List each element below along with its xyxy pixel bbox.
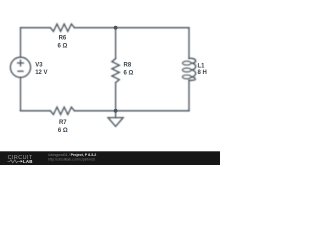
- wire right vertical top: [188, 28, 190, 59]
- inductor L1 coil arc 2: [191, 63, 196, 70]
- logo arrow: [21, 160, 23, 162]
- junction node top: [114, 26, 118, 30]
- inductor L1 loop ellipse 2: [182, 68, 191, 72]
- svg-text:6 Ω: 6 Ω: [124, 70, 134, 76]
- wire top middle: [74, 27, 189, 29]
- wire top-left horizontal lead: [21, 27, 51, 29]
- junction node bottom: [114, 109, 118, 113]
- ground stem: [115, 111, 117, 118]
- svg-text:http://circuitlab.com/c/p8hm3t: http://circuitlab.com/c/p8hm3t: [48, 158, 95, 162]
- resistor R8: [112, 59, 119, 83]
- inductor L1 coil arc 1: [189, 58, 196, 63]
- watermark bar: [0, 151, 220, 165]
- svg-text:8 H: 8 H: [198, 70, 207, 76]
- ground triangle: [108, 118, 123, 127]
- watermark credits line 1: [48, 153, 96, 162]
- logo zigzag: [7, 160, 20, 163]
- svg-text:R8: R8: [124, 63, 132, 69]
- wire R8 top lead: [115, 28, 117, 59]
- V3 minus sign: [18, 70, 23, 72]
- resistor R6: [50, 24, 74, 31]
- wire left vertical bottom: [20, 77, 22, 110]
- svg-text:12 V: 12 V: [35, 70, 47, 76]
- wire left vertical top: [20, 28, 22, 58]
- resistor R7: [50, 107, 74, 114]
- inductor L1 coil arc 3: [191, 70, 196, 77]
- svg-text:LAB: LAB: [23, 159, 33, 164]
- wire bottom middle: [74, 110, 189, 112]
- svg-text:R7: R7: [59, 120, 67, 126]
- inductor L1 loop ellipse 1: [182, 61, 191, 65]
- inductor L1 loop ellipse 3: [182, 75, 191, 79]
- CircuitLab logo CIRCUIT text: [8, 155, 33, 164]
- V3 plus sign: [18, 60, 24, 66]
- inductor L1 coil tail: [189, 77, 195, 81]
- svg-text:lulongorui01 / Project, P 8.3-: lulongorui01 / Project, P 8.3-2: [48, 153, 96, 157]
- svg-text:V3: V3: [35, 62, 43, 68]
- svg-text:6 Ω: 6 Ω: [58, 128, 68, 134]
- wire L1 bottom lead: [188, 80, 190, 110]
- wire bottom-left lead: [21, 110, 51, 112]
- svg-text:6 Ω: 6 Ω: [57, 44, 67, 50]
- svg-text:R6: R6: [59, 36, 67, 42]
- svg-text:L1: L1: [198, 63, 206, 69]
- voltage source V3: [10, 57, 30, 77]
- wire R8 bottom lead: [115, 83, 117, 111]
